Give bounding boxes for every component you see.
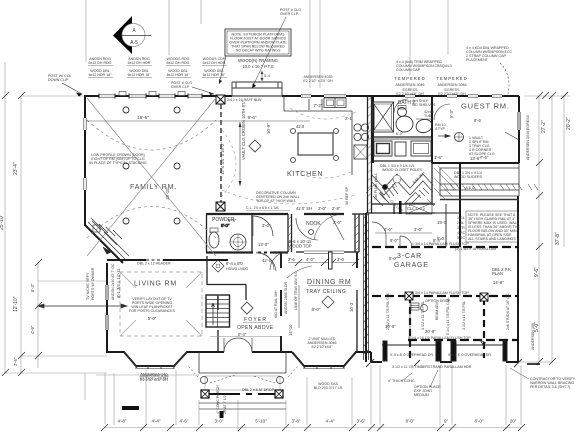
left dim lines (4, 62, 6, 373)
svg-text:3 1/2 x 11 7/8 PSL: 3 1/2 x 11 7/8 PSL (462, 301, 466, 330)
porch steps (199, 403, 286, 409)
svg-text:19'-10": 19'-10" (165, 186, 170, 200)
svg-text:TV NICHE VRFY: TV NICHE VRFY (86, 272, 90, 300)
svg-text:4'-8": 4'-8" (118, 419, 127, 424)
svg-text:DINING RM: DINING RM (307, 279, 352, 286)
post w/col down clip note + leader (48, 74, 82, 97)
svg-text:CL.: CL. (407, 206, 414, 211)
right tub platform (415, 118, 434, 135)
mud room / stair hall details (380, 186, 432, 214)
svg-text:5'-0": 5'-0" (148, 316, 157, 321)
svg-text:KITCHEN: KITCHEN (287, 171, 323, 178)
svg-text:WOOD TOP: WOOD TOP (288, 244, 311, 249)
tempered window labels (394, 76, 467, 96)
svg-text:20'-8": 20'-8" (425, 329, 436, 334)
svg-text:1 GL: 1 GL (457, 216, 465, 220)
right big note paragraph (468, 213, 520, 241)
svg-text:6'-0": 6'-0" (221, 223, 230, 228)
svg-text:5 SC: 5 SC (457, 236, 465, 240)
svg-text:2'-0": 2'-0" (318, 206, 327, 211)
svg-text:1 3/4 x 14 PARALLAM FLUSH TOP: 1 3/4 x 14 PARALLAM FLUSH TOP (412, 291, 469, 295)
dining walls (280, 252, 282, 268)
post between nook and dining (329, 252, 333, 269)
island (298, 133, 333, 155)
family window thin lines in gaps (99, 95, 502, 97)
family rm top wall (with window gaps) (84, 95, 219, 97)
svg-text:3'-0: 3'-0 (337, 257, 345, 262)
svg-text:27'-2": 27'-2" (541, 120, 547, 133)
svg-text:A-5: A-5 (130, 40, 138, 46)
right contractor note (510, 368, 576, 389)
svg-text:4'-6": 4'-6" (180, 419, 189, 424)
svg-text:DBL 2 x 12 HEADER: DBL 2 x 12 HEADER (137, 262, 171, 266)
svg-text:9'-6": 9'-6" (534, 267, 540, 277)
rear porch (232, 82, 282, 96)
svg-text:2'-1: 2'-1 (345, 116, 353, 121)
fireplace hatch (88, 218, 129, 260)
garage front wall (370, 352, 372, 362)
garage door headers (382, 341, 507, 361)
right dim lines (538, 96, 540, 362)
svg-text:3'-6": 3'-6" (262, 223, 271, 228)
svg-text:3'-0": 3'-0" (215, 419, 224, 424)
window tick marks family top (99, 94, 202, 99)
svg-text:5'-3": 5'-3" (449, 109, 454, 118)
svg-text:20": 20" (510, 419, 517, 424)
stair hall walls (206, 256, 208, 285)
svg-text:BEAM ABV: BEAM ABV (435, 301, 439, 320)
svg-text:MEDIUM: MEDIUM (414, 393, 429, 397)
svg-text:ANDERSEN 3046 EGRESS: ANDERSEN 3046 EGRESS (526, 114, 530, 160)
svg-text:4'-4": 4'-4" (152, 419, 161, 424)
cooktop burners (354, 124, 361, 131)
svg-text:13'-0": 13'-0" (258, 242, 269, 247)
svg-text:8'-0": 8'-0" (475, 419, 484, 424)
hall arcs near powder (256, 252, 288, 270)
foyer chandelier diamond (241, 302, 253, 314)
svg-text:FOR POSTS CLEARANCES: FOR POSTS CLEARANCES (129, 309, 176, 313)
svg-text:16'-6": 16'-6" (137, 115, 149, 120)
svg-text:6x12 HDR 16": 6x12 HDR 16" (89, 73, 113, 77)
svg-text:3-CAR: 3-CAR (397, 253, 422, 260)
foyer/stair (217, 296, 219, 310)
svg-text:6x12 DH RDG: 6x12 DH RDG (167, 61, 190, 65)
guest bottom wall (432, 162, 519, 164)
svg-text:5 1/4 x 16 1/2 PARALLAM FLUSH: 5 1/4 x 16 1/2 PARALLAM FLUSH TOP (408, 336, 471, 340)
svg-text:3'-8": 3'-8" (292, 419, 301, 424)
X box posts on column line (216, 95, 225, 211)
svg-text:6x12 HDR 16": 6x12 HDR 16" (167, 73, 191, 77)
guest east wall (518, 96, 520, 163)
svg-text:8'-0": 8'-0" (312, 307, 321, 312)
svg-text:12'-10": 12'-10" (13, 296, 19, 312)
svg-text:TRAY CEILING: TRAY CEILING (306, 289, 346, 295)
svg-text:4" CONC PORCH: 4" CONC PORCH (216, 385, 220, 414)
garage dim arrows (410, 300, 486, 346)
svg-text:6'-4 x 8'0: 6'-4 x 8'0 (226, 261, 243, 266)
left horizontal arrow (38, 304, 127, 308)
svg-text:4'-0": 4'-0" (306, 257, 315, 262)
svg-text:A & C: A & C (465, 186, 475, 190)
svg-text:IN PLACE OF TYPICAL STACKING: IN PLACE OF TYPICAL STACKING (89, 161, 146, 165)
svg-text:ANDSN 2x10 AT 7' OC: ANDSN 2x10 AT 7' OC (111, 263, 115, 300)
kitchen lights + fan (249, 129, 339, 163)
svg-text:2'-6: 2'-6 (288, 257, 296, 262)
svg-text:3'-0": 3'-0" (414, 227, 423, 232)
svg-text:5 1/4 x 11 7/8 PSL COL: 5 1/4 x 11 7/8 PSL COL (446, 297, 450, 335)
dining bay (292, 352, 371, 366)
bath west wall (372, 96, 374, 163)
svg-text:ANDERSEN 100: ANDERSEN 100 (531, 323, 535, 350)
svg-text:9'-6: 9'-6 (474, 118, 482, 123)
svg-text:OVER CLP: OVER CLP (171, 85, 190, 89)
garage bottom right angle ticks (366, 359, 522, 367)
svg-text:ANDERSEN 3046: ANDERSEN 3046 (396, 83, 425, 87)
svg-text:8'-0": 8'-0" (406, 419, 415, 424)
window ticks on living west wall (106, 285, 108, 330)
svg-text:37'-8": 37'-8" (555, 232, 561, 245)
svg-text:BLD 203 3717 LR: BLD 203 3717 LR (314, 386, 343, 390)
svg-text:6x12 DH HDR: 6x12 DH HDR (203, 61, 226, 65)
column line dashed (220, 104, 222, 203)
svg-text:E2 2'10"x4'6": E2 2'10"x4'6" (311, 345, 333, 349)
section marker A/A-5 (113, 16, 151, 54)
svg-text:3'-6": 3'-6" (434, 155, 443, 160)
svg-text:NOOK: NOOK (306, 221, 321, 227)
svg-text:VAULT CLG CROWN 10TH 9'1": VAULT CLG CROWN 10TH 9'1" (241, 100, 246, 160)
oven box (354, 145, 367, 159)
svg-text:TEMPERED: TEMPERED (436, 76, 467, 81)
svg-text:2'-6": 2'-6" (13, 357, 18, 366)
4" conc note (388, 370, 441, 397)
nook walls (287, 214, 289, 252)
powder room (206, 214, 208, 253)
svg-text:4'-4": 4'-4" (326, 419, 335, 424)
powder sink (230, 234, 246, 250)
svg-text:WD SHELVES: WD SHELVES (412, 103, 436, 107)
porch posts (201, 390, 283, 398)
garage/house west wall (365, 213, 367, 362)
guest window on east wall (518, 112, 520, 130)
svg-text:4'-9": 4'-9" (30, 325, 35, 334)
svg-text:10'-3: 10'-3 (349, 302, 354, 312)
dining bay mullions (294, 355, 354, 370)
mud area (366, 212, 435, 214)
stair at foyer (rect treads) (206, 295, 230, 327)
svg-text:LIVING RM: LIVING RM (134, 281, 177, 288)
svg-text:GARAGE: GARAGE (394, 262, 429, 269)
column cap note center (396, 60, 452, 72)
svg-text:6'-3": 6'-3" (30, 283, 35, 292)
kitchen arcs (222, 108, 356, 204)
svg-text:14'-8": 14'-8" (493, 280, 504, 285)
svg-text:9'-4": 9'-4" (433, 238, 442, 243)
X box garage posts (405, 292, 488, 301)
wood framing note (219, 56, 278, 84)
svg-text:2'-0": 2'-0" (333, 220, 342, 225)
living bottom + bay (107, 352, 218, 366)
svg-text:TUB: TUB (424, 114, 432, 118)
svg-text:42.0: 42.0 (296, 124, 305, 129)
powder toilet (209, 232, 219, 248)
svg-text:42.0' SH: 42.0' SH (296, 206, 312, 211)
kitchen east wall hatch (288, 97, 372, 251)
svg-text:9'-0": 9'-0" (390, 238, 399, 243)
svg-text:25'-10": 25'-10" (0, 214, 5, 230)
vanity row (372, 138, 432, 140)
left dims (2, 92, 42, 376)
note box (double border) (225, 29, 291, 56)
svg-text:ALL STAIRS AND LANDINGS: ALL STAIRS AND LANDINGS (468, 237, 516, 241)
decorative column note (246, 191, 300, 211)
garage fixtures (411, 294, 488, 312)
svg-text:OVER CLP: OVER CLP (280, 12, 299, 16)
toilet (398, 108, 407, 117)
door arc (394, 99, 408, 113)
svg-text:E2 2'10" x 3'5" DH: E2 2'10" x 3'5" DH (303, 79, 333, 83)
svg-text:2x6 STUDS AT 16" OC: 2x6 STUDS AT 16" OC (506, 293, 510, 330)
svg-text:C.L. 2'0 x 6'8 x 1 3/8: C.L. 2'0 x 6'8 x 1 3/8 (246, 206, 279, 210)
svg-text:6'-0": 6'-0" (396, 132, 404, 136)
svg-text:8'-1 3/4 x 14'-11: 8'-1 3/4 x 14'-11 (116, 268, 121, 298)
mud door arc + stubs (372, 166, 458, 247)
svg-text:E2 2103 x 4'6 DH: E2 2103 x 4'6 DH (140, 377, 168, 381)
svg-text:5'-0": 5'-0" (389, 256, 398, 261)
svg-text:4 RC: 4 RC (457, 231, 466, 235)
svg-text:14'-10: 14'-10 (288, 324, 293, 336)
family west wall (window gaps) (84, 95, 86, 226)
kitchen east wall (thick) (367, 96, 369, 213)
svg-text:5'-4: 5'-4 (264, 74, 270, 78)
svg-text:7'-6": 7'-6" (480, 155, 489, 160)
post clg over note (252, 8, 301, 88)
living bay window mullions (124, 352, 187, 369)
svg-text:6x12 HDR 16": 6x12 HDR 16" (128, 73, 152, 77)
svg-text:10.0 x 19.7 P.T.S: 10.0 x 19.7 P.T.S (242, 64, 274, 69)
svg-text:GUEST RM.: GUEST RM. (461, 102, 510, 111)
svg-text:ANDSN 2868 SLDR: ANDSN 2868 SLDR (284, 281, 288, 314)
svg-text:WOOD SLIDERS: WOOD SLIDERS (454, 175, 483, 179)
right mid horizontal line (519, 361, 552, 363)
hall south dashed opening (258, 252, 273, 254)
svg-text:9'-0 x 8'-0 OVERHEAD DR.: 9'-0 x 8'-0 OVERHEAD DR. (448, 353, 492, 357)
wdws note left of bath (303, 75, 333, 83)
top right dim ticks (542, 92, 568, 99)
svg-text:10'-9": 10'-9" (266, 123, 271, 134)
svg-text:9": 9" (444, 419, 449, 424)
vertical extension lines top (85, 0, 87, 62)
header label columns (88, 57, 227, 78)
kitchen south wall (206, 213, 288, 215)
house east wall mid (459, 163, 461, 247)
svg-text:PLAN: PLAN (492, 271, 503, 276)
svg-text:E2 2'10"x4'6" DH: E2 2'10"x4'6" DH (438, 92, 466, 96)
post clg note near column (171, 81, 214, 95)
svg-text:DBL 2 x 8 AT DROP: DBL 2 x 8 AT DROP (242, 388, 275, 392)
svg-text:6x12 DH RDG: 6x12 DH RDG (89, 61, 112, 65)
svg-text:TOP OF 42" HIGH WALL: TOP OF 42" HIGH WALL (256, 199, 296, 203)
stairs bottom wall + closet (371, 203, 435, 205)
svg-text:COLUMN CAP: COLUMN CAP (396, 68, 421, 72)
svg-text:3'-6": 3'-6" (357, 419, 366, 424)
bath+guest top wall (window gaps) (373, 95, 519, 97)
svg-text:PER DETAIL 3-6 (SHT 7): PER DETAIL 3-6 (SHT 7) (530, 385, 570, 389)
svg-text:HDWD LNDG: HDWD LNDG (226, 267, 248, 271)
bottom dims row (101, 424, 525, 431)
svg-text:3 1/2 x 11 7/8 TIMBERSTRAND PA: 3 1/2 x 11 7/8 TIMBERSTRAND PARALLAM HDR (392, 365, 472, 369)
counter east edge (351, 111, 353, 175)
svg-text:9'-6": 9'-6" (248, 115, 257, 120)
family rm crown note (89, 153, 146, 165)
hatched garage separation wall (364, 213, 369, 360)
svg-text:4 TYP: 4 TYP (435, 127, 446, 131)
vault X diagonals (87, 98, 216, 256)
garage east wall (517, 196, 519, 362)
svg-text:23'-4": 23'-4" (13, 162, 19, 175)
svg-text:19'-0: 19'-0 (437, 220, 447, 225)
svg-text:FOYER: FOYER (244, 317, 267, 323)
stair hall fixture + dims (212, 260, 224, 272)
foyer bottom (218, 351, 224, 353)
svg-text:WOOD CLOSET POLES: WOOD CLOSET POLES (382, 168, 422, 172)
svg-text:2'-8": 2'-8" (332, 206, 341, 211)
counters top (284, 96, 369, 175)
door arc into hall (253, 216, 273, 236)
svg-text:36 REF SP: 36 REF SP (345, 186, 349, 205)
svg-text:10'-0": 10'-0" (385, 324, 396, 329)
svg-text:3 TR: 3 TR (457, 226, 465, 230)
svg-text:TEMPERED: TEMPERED (394, 76, 425, 81)
guest col note + dashed leader (466, 46, 513, 94)
svg-text:2 SL: 2 SL (457, 221, 464, 225)
svg-text:7'-2": 7'-2" (314, 103, 323, 108)
svg-text:OPEN ABOVE: OPEN ABOVE (237, 325, 274, 331)
porch small texts rotated (216, 385, 227, 414)
svg-text:4" THICK CONC.: 4" THICK CONC. (388, 379, 416, 383)
svg-text:6x12 DH HDR: 6x12 DH HDR (128, 61, 151, 65)
fireplace diagonal (85, 225, 123, 263)
family west wall window thin lines (84, 118, 86, 190)
svg-text:PORTS W/ OWNER: PORTS W/ OWNER (91, 267, 95, 300)
svg-text:6x12 HDR 16": 6x12 HDR 16" (203, 73, 227, 77)
living/family wall (107, 259, 228, 261)
svg-text:(2) 1 3/4 x 18 PARALLAM: (2) 1 3/4 x 18 PARALLAM (455, 247, 496, 251)
bath/guest bottom interior (372, 160, 432, 162)
svg-text:5'-4": 5'-4" (228, 218, 237, 223)
can lights family (123, 107, 180, 224)
svg-text:42'-0: 42'-0 (262, 258, 272, 263)
big oval tub (396, 116, 413, 132)
svg-text:E2 2'10"x4'6" DH: E2 2'10"x4'6" DH (396, 92, 424, 96)
svg-text:LINE OF TRAY ABV 9-0: LINE OF TRAY ABV 9-0 (294, 272, 298, 310)
living west wall (106, 263, 108, 353)
svg-text:2R AT 7 1/2: 2R AT 7 1/2 (223, 395, 227, 414)
svg-text:5'-10": 5'-10" (255, 419, 267, 424)
kitchen top wall (219, 95, 373, 97)
svg-text:PLACEMENT: PLACEMENT (466, 58, 489, 62)
svg-text:9'-0 x 8'-0 OVERHEAD DR.: 9'-0 x 8'-0 OVERHEAD DR. (390, 353, 434, 357)
shower (373, 102, 394, 132)
svg-text:ANDERSEN 3046: ANDERSEN 3046 (438, 83, 467, 87)
family rotated dims (165, 100, 246, 200)
svg-text:KID AT RAIL 36H: KID AT RAIL 36H (274, 290, 278, 318)
bottom extension lines (113, 373, 115, 425)
svg-text:WOOD(N) FRAMING: WOOD(N) FRAMING (238, 58, 278, 63)
family rm dim line 16-6 (86, 115, 310, 121)
front double door arcs (224, 338, 252, 352)
svg-text:12'-4 3/4" x 19'-2": 12'-4 3/4" x 19'-2" (220, 142, 225, 175)
svg-text:20'-2": 20'-2" (566, 117, 572, 130)
svg-text:DOWN CLIP: DOWN CLIP (48, 78, 69, 82)
garage rotated texts (386, 292, 510, 335)
guest west wall (431, 96, 433, 163)
svg-text:NO DECAY WPG RATINGS: NO DECAY WPG RATINGS (236, 49, 281, 53)
